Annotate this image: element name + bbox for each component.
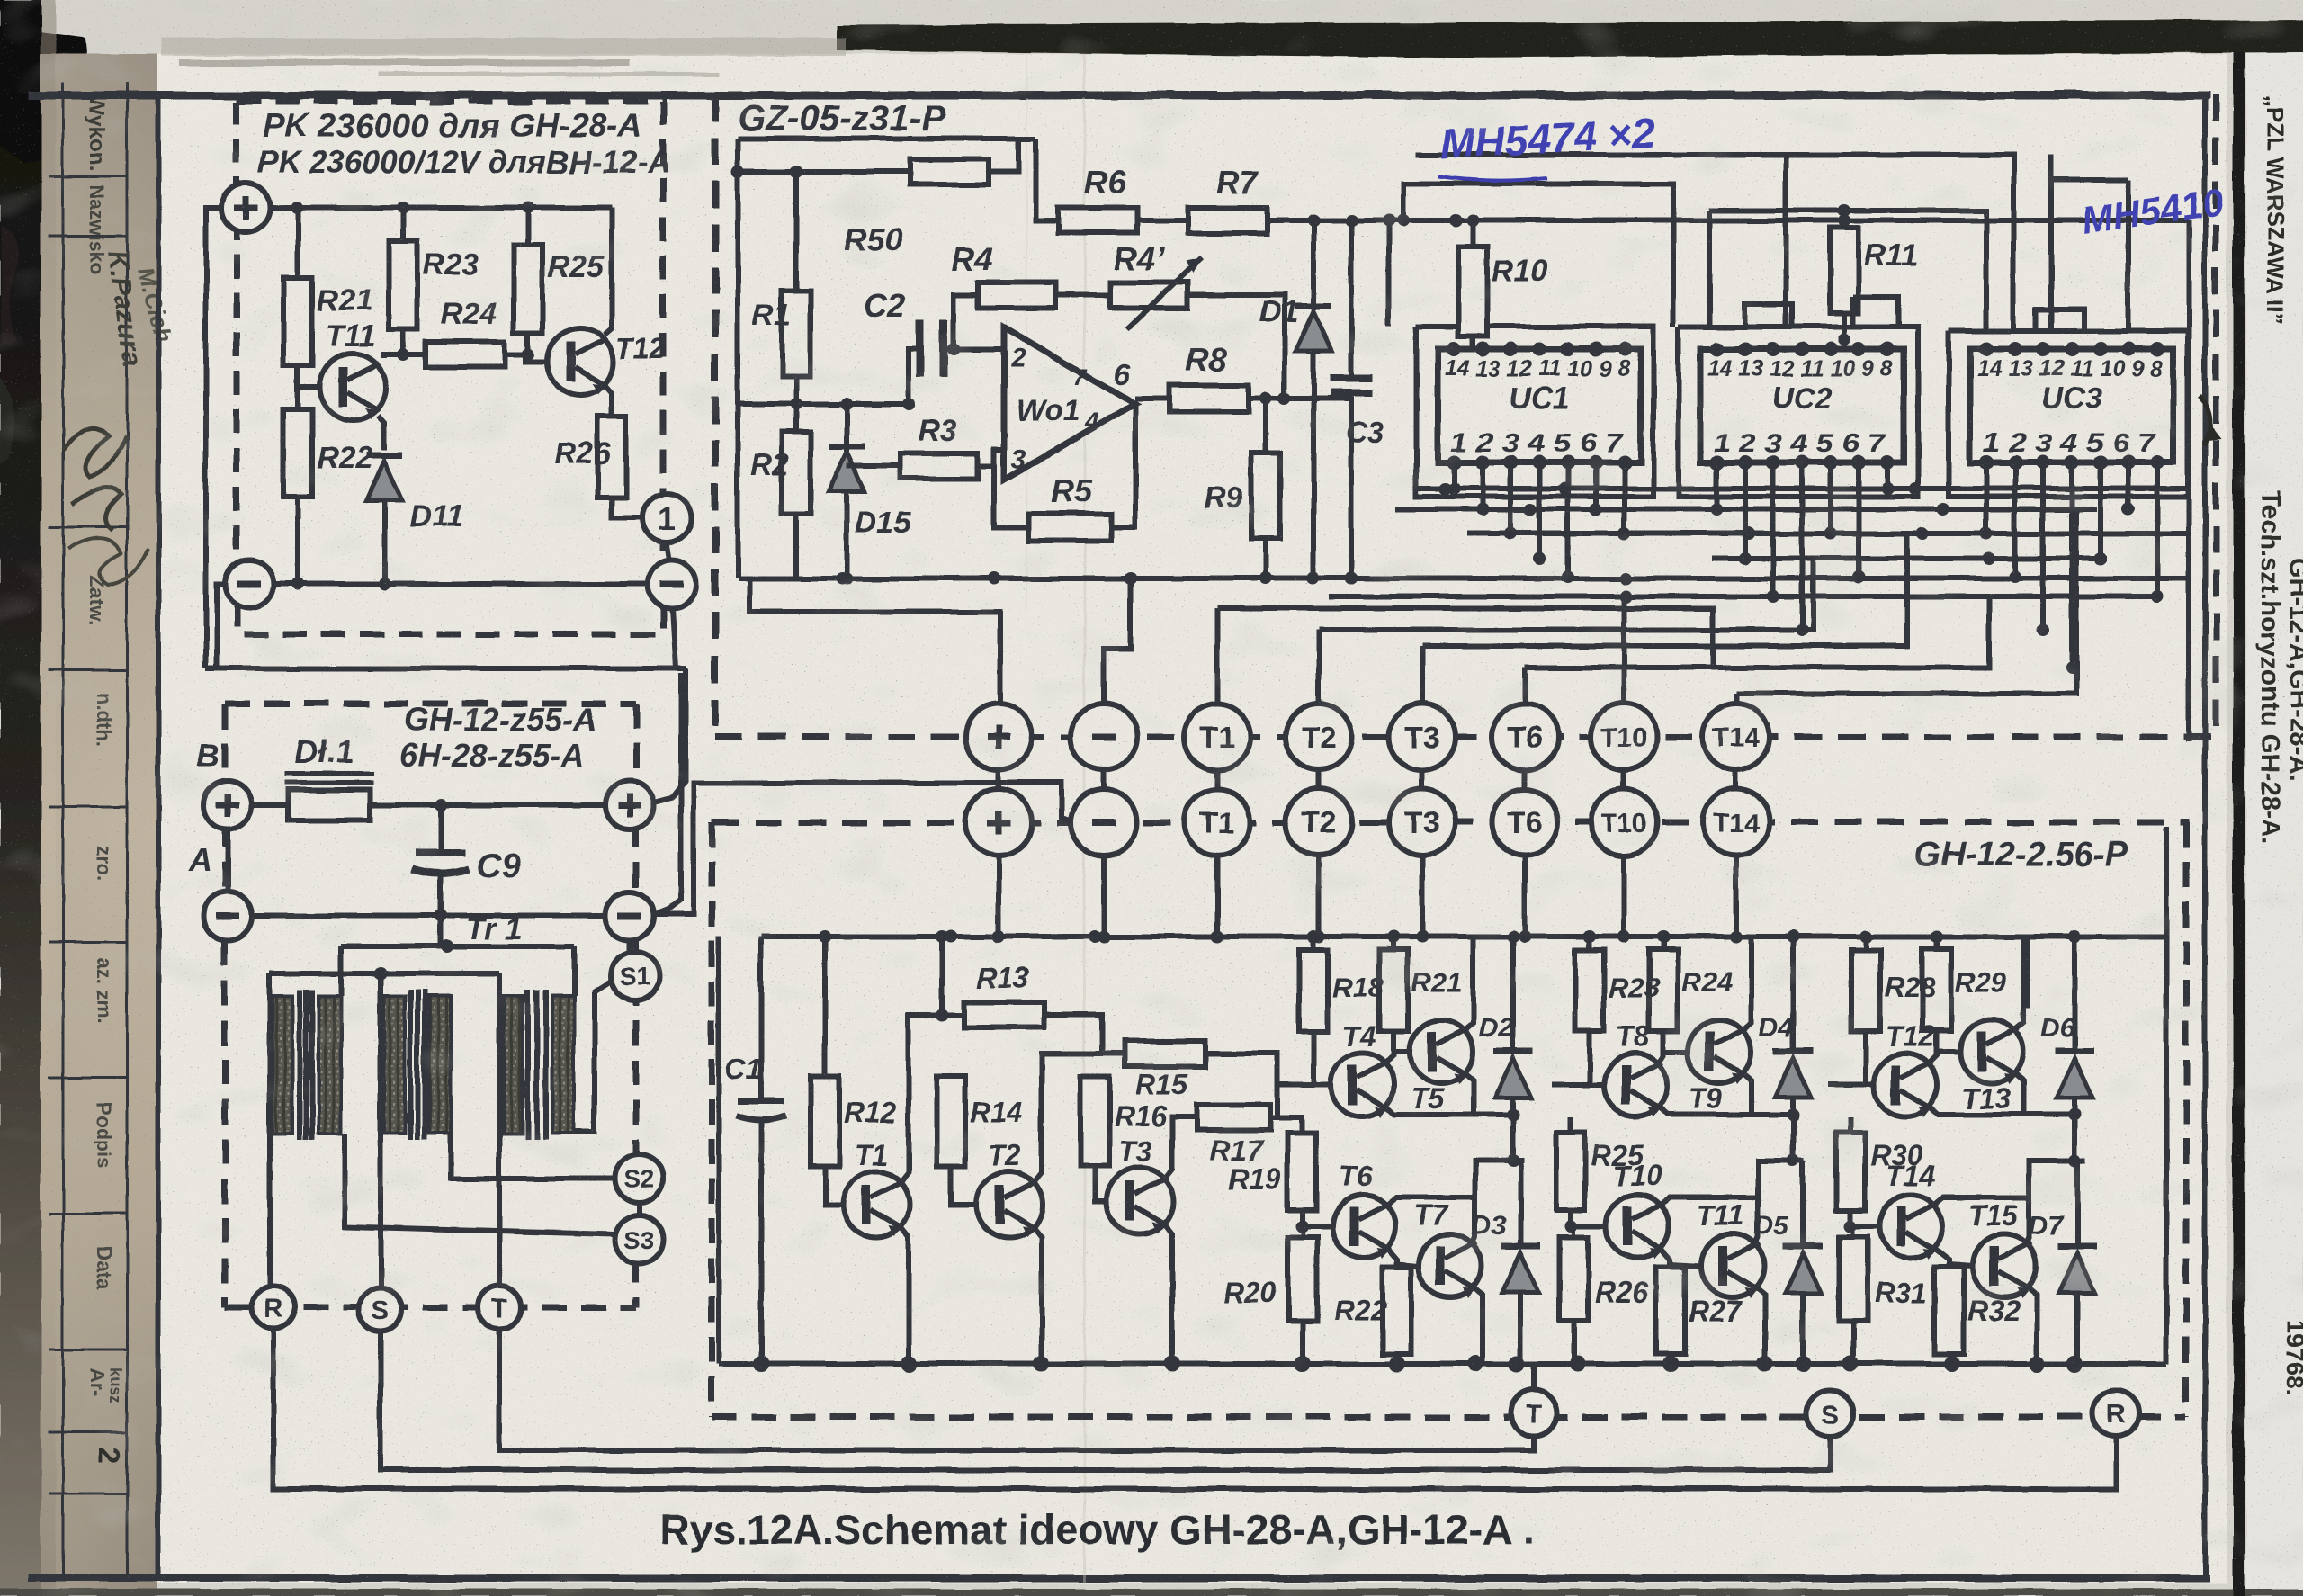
transformer Tr1 windings: [273, 990, 574, 1140]
terminal row2 T14: [1703, 789, 1770, 856]
resistor R24: [1649, 937, 1688, 1052]
title block rotated labels: [85, 94, 177, 1464]
wire box top rail: [761, 930, 2166, 943]
resistor R19: [1287, 1117, 1332, 1233]
wire R4p out down: [1187, 295, 1291, 405]
wire Tr1 left drop: [267, 973, 273, 1287]
terminal row1 T2: [1286, 704, 1352, 770]
label R23: [423, 247, 479, 282]
label Dl.1: [294, 733, 354, 770]
transistor T12: [547, 328, 614, 395]
wire + top rail: [270, 202, 612, 214]
label T7: [1414, 1199, 1450, 1232]
wire uc top bus b: [1709, 211, 1986, 328]
label R7: [1216, 164, 1259, 201]
title block table lines: [49, 83, 127, 1582]
resistor R22: [283, 409, 312, 584]
wire R5 to out: [1111, 404, 1135, 527]
resistor R23: [1552, 937, 1604, 1085]
wire UC3 outer loop: [1949, 331, 2188, 497]
terminal row2 T2: [1286, 789, 1352, 856]
wire band h593: [1467, 527, 2189, 540]
resistor R6: [1058, 208, 1137, 233]
wire row1 dashed bus: [715, 734, 2216, 740]
wire T15 collector: [2026, 1161, 2077, 1246]
wire T3 emitter down: [1165, 1224, 1172, 1364]
transistor T10: [1606, 1195, 1669, 1259]
terminal T bottom: [1510, 1390, 1557, 1437]
wire band right vertical: [2186, 220, 2191, 741]
wire + feed down left: [206, 208, 222, 668]
resistor R25: [1556, 1117, 1606, 1233]
wire S2-S3 dash: [636, 1203, 641, 1216]
handwritten signatures: [63, 427, 148, 585]
terminal row2 T1: [1184, 789, 1250, 856]
label Tr1: [466, 912, 522, 946]
wire T10 riser: [1621, 596, 1626, 704]
wire T11 collector to R24: [384, 348, 426, 361]
wire R4-R4p: [1055, 292, 1110, 298]
terminal R bottom: [2092, 1390, 2139, 1437]
fuse Dl.1: [252, 774, 604, 820]
wire C2 branch: [909, 349, 920, 404]
wire uc step c: [1853, 297, 1898, 327]
label T6: [1339, 1160, 1373, 1192]
label R6: [1084, 164, 1126, 201]
wire T1 riser: [1214, 608, 1220, 704]
wire T8 emitter: [1657, 1105, 1799, 1121]
terminal row2 -: [1071, 789, 1137, 856]
wire T1 emitter down: [901, 1228, 909, 1364]
wire Tr1 w6 drop: [571, 946, 577, 996]
wire mid node line: [738, 398, 915, 410]
wire UC1 outer loop: [1416, 327, 1653, 497]
label A: [188, 841, 212, 878]
label T14: [1886, 1160, 1935, 1192]
title block column: [41, 54, 157, 1596]
scan crease vertical: [1026, 54, 1086, 1583]
resistor R31: [1839, 1226, 1868, 1364]
label T15: [1968, 1199, 2019, 1232]
wire R50 out jog: [989, 139, 1058, 220]
label R26: [554, 436, 611, 471]
label R30: [1870, 1139, 1923, 1171]
wire T2 riser: [1316, 630, 1322, 704]
wire T14 emitter: [1932, 1246, 1973, 1266]
wire hook to minus lower: [656, 608, 681, 914]
wire R24 to T12 base: [505, 348, 547, 362]
wire uc top bus a: [1416, 155, 2013, 328]
terminal - right (PK): [648, 560, 696, 608]
transistor T11: [319, 354, 386, 420]
wire T bottom up: [1531, 1364, 1537, 1390]
label R13: [976, 962, 1029, 994]
resistor R4: [954, 282, 1055, 349]
wire Tr1 T drop: [497, 973, 502, 1289]
resistor R5: [1028, 514, 1111, 541]
label R20: [1223, 1277, 1277, 1309]
label R22: [1334, 1295, 1387, 1327]
terminal + (PK): [221, 184, 270, 232]
label R11: [1864, 238, 1918, 273]
transistor T1: [843, 1171, 910, 1238]
resistor R22: [1383, 1267, 1411, 1364]
resistor R7: [1187, 208, 1267, 233]
label D1: [1259, 295, 1298, 329]
right margin separator bar: [2233, 52, 2245, 1596]
label R4: [952, 240, 993, 277]
wire T12 collector: [605, 208, 612, 335]
label R25: [548, 250, 605, 284]
capacitor C2: [920, 320, 944, 378]
diode D3: [1501, 1161, 1540, 1364]
wire T11 emitter to D11: [378, 416, 384, 450]
wire T10 emitter: [1659, 1246, 1701, 1266]
label R24: [1681, 966, 1733, 998]
right margin rotated number 19768: [2281, 1321, 2303, 1395]
transistor T8: [1604, 1054, 1667, 1117]
wire band h676 right: [1217, 608, 1713, 668]
label R31: [1875, 1277, 1928, 1309]
wire T13 emitter: [2013, 1071, 2024, 1115]
diode D11: [366, 455, 402, 584]
wire T6 emitter: [1385, 1246, 1419, 1266]
wire box inner right: [2164, 827, 2169, 1364]
wire band h566: [1395, 503, 2097, 516]
wire T11 collector: [1754, 1161, 1803, 1246]
resistor R23: [389, 208, 417, 354]
wire T12 emitter: [1927, 1105, 2081, 1121]
wire GZ bottom rail: [738, 572, 2189, 585]
wire R13 out: [1044, 1015, 1102, 1054]
label B: [196, 737, 220, 774]
resistor R26: [1559, 1226, 1588, 1364]
wire T14 riser: [1734, 694, 1739, 704]
transistor T7: [1419, 1234, 1482, 1298]
label R14: [970, 1097, 1023, 1129]
wire T6 riser: [1522, 668, 1528, 704]
resistor R18: [1276, 937, 1331, 1085]
wire T14 collector: [1932, 1197, 2030, 1206]
capacitor C9: [412, 805, 470, 922]
resistor R12: [811, 937, 844, 1205]
wire row2 dashed bus: [712, 820, 2189, 826]
diode D7: [2057, 1161, 2097, 1364]
terminal S2: [614, 1154, 663, 1203]
GH-z55 box titles: [399, 701, 596, 774]
terminal - mid: [605, 892, 654, 940]
resistor R20: [1288, 1226, 1317, 1364]
GH-z56 box dashed border: [712, 822, 2186, 1417]
resistor R13: [963, 1002, 1044, 1027]
wire T4 collector: [1384, 1031, 1393, 1065]
terminal row1 T6: [1492, 704, 1558, 770]
resistor R14: [936, 1076, 977, 1205]
wire T11 base: [298, 365, 319, 409]
diode D2: [1493, 937, 1533, 1167]
wire UC2 outer loop: [1679, 327, 1918, 497]
label D3: [1472, 1211, 1507, 1241]
resistor R3: [847, 453, 978, 479]
transistor T6: [1332, 1195, 1395, 1259]
label R24: [441, 297, 497, 331]
label R15: [1135, 1068, 1189, 1100]
resistor R16: [1080, 1076, 1109, 1201]
wire uc1 to top rail: [1383, 214, 1395, 327]
GZ-05 box title: [738, 99, 945, 139]
wire T9 collector: [1741, 937, 1752, 1032]
label T1: [855, 1139, 888, 1171]
wire right cell feeds: [1752, 937, 2028, 1009]
terminal S1: [611, 952, 659, 1000]
resistor R2: [782, 432, 811, 578]
op-amp Wo1: [1004, 327, 1135, 480]
resistor R13 feed: [936, 937, 948, 1021]
wire T1 collector up: [901, 1015, 963, 1181]
terminal S left: [359, 1288, 402, 1331]
label C1: [725, 1054, 762, 1086]
terminal row1 T10: [1591, 704, 1657, 770]
wire T2 collector up: [1035, 1054, 1125, 1181]
left scanner edge: [0, 0, 90, 1596]
transistor T13: [1960, 1020, 2023, 1084]
diode D5: [1783, 1161, 1823, 1364]
terminal + mid: [605, 781, 654, 829]
label C2: [864, 287, 905, 324]
label R3: [918, 414, 957, 448]
wire T11 emitter: [1754, 1286, 1765, 1364]
label T9: [1689, 1082, 1723, 1115]
resistor R9: [1251, 399, 1280, 578]
wire minus-S1 link: [627, 940, 632, 952]
transistor T11: [1701, 1234, 1764, 1298]
wire T12 collector: [1927, 1031, 1937, 1065]
transistor T14: [1879, 1195, 1942, 1259]
wire R8 out: [1249, 392, 1351, 405]
wire band h742: [1525, 596, 1989, 668]
terminal A minus: [203, 892, 252, 940]
terminal row1 T3: [1389, 704, 1456, 770]
resistor R11: [1830, 204, 1859, 349]
IC UC2: [1700, 342, 1904, 470]
wire band h663: [1330, 590, 2155, 603]
resistor R26: [597, 417, 626, 498]
wire band h771: [1736, 509, 2076, 694]
label R1: [752, 299, 791, 333]
wire T9 emitter: [1741, 1071, 1752, 1115]
label D4: [1759, 1013, 1794, 1043]
resistor R29: [1922, 937, 1960, 1052]
resistor R21: [1379, 937, 1410, 1052]
wire R7 to right rail: [1267, 214, 2189, 227]
label R27: [1689, 1295, 1743, 1327]
wire band h700: [1319, 559, 1813, 630]
top scan band: [162, 20, 2303, 76]
transistor T2: [976, 1171, 1043, 1238]
terminal row2 T3: [1389, 789, 1456, 856]
wire R3 to pin3 and R5: [978, 450, 1028, 527]
label T11: [326, 319, 376, 354]
wire R50 input: [731, 166, 910, 178]
terminal row2 +: [965, 789, 1032, 856]
diode D6: [2055, 937, 2094, 1167]
wire S3 tap: [345, 1134, 614, 1234]
resistor R10: [1458, 220, 1487, 349]
wire PK bottom rail: [273, 578, 648, 590]
label R28: [1885, 972, 1937, 1003]
resistor R25: [514, 208, 542, 354]
wire S left down: [381, 1331, 1830, 1470]
wire T13 collector: [2013, 937, 2024, 1032]
transistor T4: [1331, 1054, 1393, 1117]
PK236000 title text: [257, 107, 670, 180]
label R50: [844, 220, 903, 257]
wire C2 to opamp pin2: [944, 343, 1004, 355]
terminal row1 T1: [1184, 704, 1250, 770]
wire B-A link: [225, 829, 230, 892]
zener D15: [829, 404, 865, 585]
wire minus drop: [1104, 578, 1131, 704]
terminal row2 T6: [1492, 789, 1558, 856]
label T12: [1886, 1020, 1935, 1053]
IC UC1: [1438, 342, 1641, 470]
wire Tr1 w2 drop: [338, 946, 344, 996]
wire T5 emitter: [1463, 1071, 1474, 1115]
wire T left down: [499, 1329, 1534, 1450]
wire uc top bus c: [1397, 184, 1673, 327]
label C9: [477, 847, 521, 885]
blue note MH5474 x2: [1439, 110, 1657, 181]
wire GZ inner left vertical: [735, 139, 740, 578]
diode D4: [1773, 937, 1813, 1167]
wire R1 bottom node: [790, 376, 802, 432]
wire T5 collector: [1463, 937, 1474, 1032]
transistor T3: [1107, 1168, 1173, 1234]
wire uc step a: [1744, 304, 1792, 327]
wire - feed down left: [217, 584, 226, 668]
wire T12 emitter to R26: [605, 385, 612, 417]
wire T7 emitter: [1472, 1286, 1483, 1364]
label R21: [317, 283, 372, 318]
label R12: [844, 1097, 897, 1129]
right margin rotated text PZL WARSZAWA II: [2262, 94, 2289, 325]
wire UC pins down stubs: [1447, 462, 2164, 674]
wire R6-R7: [1137, 218, 1187, 223]
label T5: [1411, 1082, 1446, 1115]
terminal B plus: [203, 781, 252, 829]
label R21: [1411, 966, 1463, 998]
wire R26 to terminal 1: [612, 498, 641, 518]
wire Tr1 top bus: [341, 916, 574, 953]
label R26: [1595, 1277, 1648, 1309]
terminal T left: [478, 1286, 521, 1329]
label D11: [410, 499, 464, 533]
resistor R28: [1828, 937, 1880, 1085]
right margin bracket mark: [2200, 396, 2221, 445]
wire uc step b: [2036, 309, 2083, 331]
GH-z56 box title: [1914, 836, 2128, 874]
label T2: [988, 1139, 1022, 1171]
GZ-05 box dashed border: [715, 94, 2216, 741]
resistor R21: [283, 208, 312, 387]
wire row2 drops to rail: [999, 856, 1736, 937]
label R29: [1955, 966, 2007, 998]
terminal S bottom: [1806, 1390, 1853, 1437]
wire T7 collector: [1472, 1161, 1520, 1246]
wire Tr1 second bus: [270, 967, 499, 980]
wire R left down: [273, 1329, 2116, 1489]
caption Rys.12A: [659, 1506, 1534, 1553]
label R22: [317, 441, 372, 475]
resistor R1: [782, 172, 811, 376]
wire R17 out: [1270, 1117, 1302, 1133]
label D2: [1479, 1013, 1514, 1043]
wire lower distribution: [206, 666, 686, 671]
transistor T9: [1688, 1020, 1751, 1084]
wire Tr1 S drop: [378, 973, 383, 1289]
label R2: [750, 448, 790, 482]
PK236000 box dashed border: [237, 102, 663, 634]
label R5: [1051, 472, 1093, 509]
label D5: [1754, 1211, 1790, 1241]
label D6: [2040, 1013, 2075, 1043]
resistor R8: [1169, 385, 1249, 412]
label R8: [1186, 341, 1227, 378]
label T8: [1616, 1020, 1650, 1053]
label D15: [855, 506, 911, 540]
terminal 1 (PK): [642, 494, 691, 542]
wire uc2 riser: [1709, 155, 1786, 327]
label T3: [1118, 1135, 1152, 1168]
capacitor C1: [736, 937, 786, 1364]
label R10: [1492, 254, 1547, 288]
wire hook to plus lower: [656, 668, 686, 802]
terminal S3: [614, 1215, 663, 1264]
wire band h718: [1422, 533, 1907, 646]
wire T15 emitter: [2026, 1286, 2037, 1364]
wire row link verticals: [999, 769, 1736, 790]
right margin rotated text Tech szt: [2255, 490, 2303, 845]
wire A to minus mid: [252, 913, 605, 919]
blue note MH5410: [2079, 180, 2227, 242]
terminal row1 +: [965, 704, 1032, 770]
label R4': [1114, 240, 1165, 277]
label R19: [1228, 1163, 1281, 1196]
wire opamp out: [1135, 396, 1169, 401]
wire band h621: [1713, 552, 2107, 565]
wire uc3 riser: [2051, 155, 2128, 331]
transistor T15: [1973, 1234, 2036, 1298]
wire R15 out: [1205, 1054, 1277, 1117]
label C3: [1346, 416, 1385, 450]
transistor T12: [1874, 1054, 1937, 1117]
terminal R left: [252, 1286, 295, 1329]
terminal - left (PK): [225, 560, 273, 608]
wire T4 emitter: [1384, 1105, 1519, 1121]
wire T8 collector: [1657, 1031, 1663, 1065]
resistor R4': [1110, 257, 1202, 329]
resistor R17: [1196, 1105, 1270, 1130]
transistor T5: [1410, 1020, 1473, 1084]
diode D1: [1295, 220, 1331, 578]
wire T6 collector: [1385, 1197, 1475, 1206]
terminal row1 -: [1071, 704, 1137, 770]
label D7: [2029, 1211, 2065, 1241]
label T13: [1961, 1082, 2011, 1115]
wire T10 collector: [1659, 1197, 1758, 1206]
label R9: [1204, 481, 1243, 516]
label T10: [1612, 1160, 1662, 1192]
